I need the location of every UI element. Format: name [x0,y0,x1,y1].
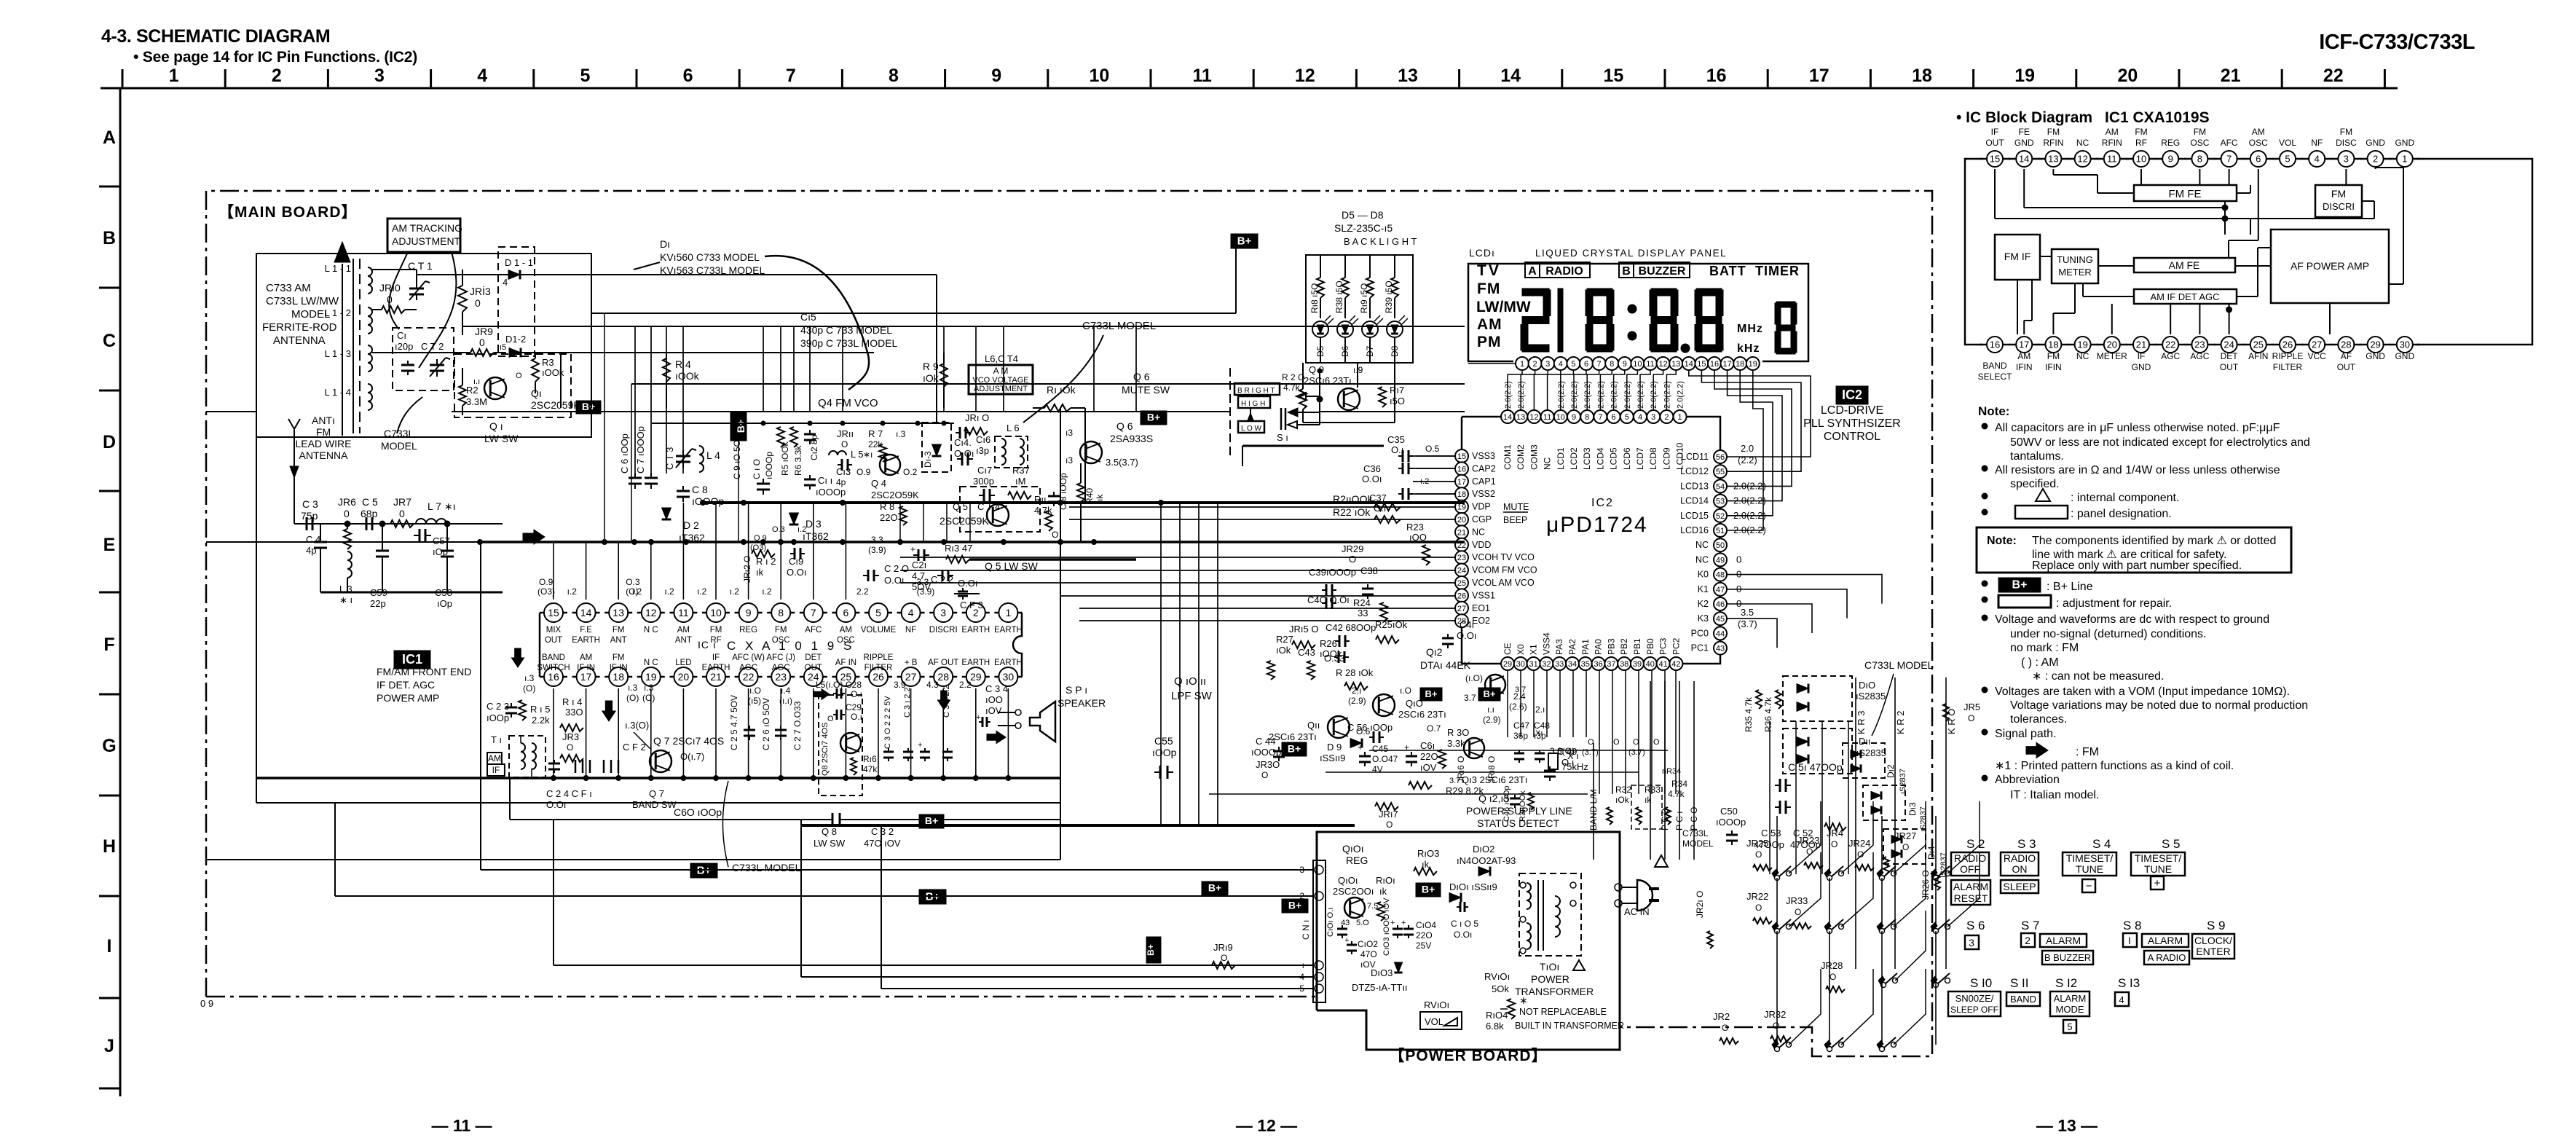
svg-text:O: O [1968,713,1974,723]
CF2 caps [603,760,605,773]
svg-text:ANTENNA: ANTENNA [299,449,349,461]
svg-text:24: 24 [1457,567,1466,576]
svg-text:19: 19 [2077,339,2087,350]
svg-text:5.O: 5.O [1356,919,1369,927]
svg-text:11: 11 [678,607,689,618]
LCD pins 1-19 [1516,357,1529,370]
svg-text:D7: D7 [1365,345,1375,357]
svg-text:2.0(2.2): 2.0(2.2) [1504,381,1513,409]
svg-text:25V: 25V [1416,940,1431,951]
svg-text:35: 35 [1581,660,1590,669]
svg-text:S II: S II [2010,976,2029,990]
svg-text:【MAIN BOARD】: 【MAIN BOARD】 [218,204,358,221]
svg-text:DTZ5-ıA-TTıı: DTZ5-ıA-TTıı [1352,982,1408,993]
svg-text:O.O47: O.O47 [1372,754,1398,764]
svg-text:17: 17 [580,671,592,683]
svg-text:OUT: OUT [545,636,562,645]
svg-text:ı3: ı3 [1066,428,1073,438]
svg-text:VCOM FM VCO: VCOM FM VCO [1472,565,1537,576]
svg-text:BEEP: BEEP [1503,515,1527,525]
svg-text:IT : Italian model.: IT : Italian model. [2010,789,2099,801]
svg-text:PC1: PC1 [1691,643,1709,653]
svg-text:(ı5): (ı5) [748,696,761,706]
svg-text:FM: FM [2135,127,2147,137]
svg-text:(O): (O) [642,693,655,703]
svg-text:SELECT: SELECT [1978,372,2012,382]
svg-text:D6: D6 [1340,345,1350,357]
backlight box [1306,255,1413,363]
svg-text:RADIO: RADIO [2004,852,2036,864]
svg-text:AM TRACKING: AM TRACKING [392,222,462,234]
svg-text:JR32: JR32 [1764,1009,1786,1020]
svg-text:L 4: L 4 [706,449,720,461]
svg-text:4-3. SCHEMATIC DIAGRAM: 4-3. SCHEMATIC DIAGRAM [101,26,330,47]
svg-text:34: 34 [1568,660,1577,669]
svg-text:0 9: 0 9 [200,998,213,1009]
svg-text:TIMER: TIMER [1755,264,1800,278]
svg-text:S 5: S 5 [2162,837,2181,851]
svg-text:PB3: PB3 [1606,638,1616,655]
AM VCO adjustment box [969,365,1033,394]
svg-text:L 6: L 6 [1007,423,1020,433]
svg-text:C N ı: C N ı [1301,920,1311,940]
svg-text:2: 2 [272,66,282,86]
svg-text:C 3: C 3 [302,498,318,510]
svg-text:PM: PM [1477,334,1502,350]
svg-text:REG: REG [739,626,757,635]
svg-text:Q 4: Q 4 [871,478,886,489]
resistor R4 [663,358,670,382]
svg-text:POWER AMP: POWER AMP [377,692,439,704]
svg-text:Voltage variations may be note: Voltage variations may be noted due to n… [2010,699,2308,712]
main board border [206,191,1932,1056]
svg-text:S I3: S I3 [2118,976,2140,990]
svg-text:VDD: VDD [1472,540,1491,550]
svg-text:5: 5 [1571,360,1575,369]
svg-text:75p: 75p [301,510,318,522]
transistor Q11 lbl [1328,716,1350,738]
svg-text:R24: R24 [1353,597,1371,608]
svg-text:SWITCH: SWITCH [537,664,570,672]
svg-text:L 1 - 2: L 1 - 2 [325,307,351,318]
svg-text:ı3p: ı3p [976,445,989,456]
adjustment legend [1982,597,1988,602]
svg-text:AM IF DET AGC: AM IF DET AGC [2150,291,2219,302]
svg-text:5Ok: 5Ok [1492,983,1509,994]
rail y581 vco subcluster [652,423,954,424]
svg-text:27: 27 [1457,605,1466,613]
svg-text:20: 20 [2117,66,2138,86]
svg-text:EARTH: EARTH [961,626,990,635]
svg-text:47k: 47k [863,764,878,774]
svg-text:I: I [2128,935,2131,946]
svg-text:12: 12 [645,607,657,618]
svg-text:O: O [841,439,848,449]
svg-text:ıOOOp: ıOOOp [764,452,774,479]
block FM FE [2134,185,2237,201]
notes text [1982,616,1988,621]
svg-text:∗: ∗ [1519,994,1528,1006]
svg-text:MODEL: MODEL [381,440,417,452]
svg-text:EARTH: EARTH [702,664,730,672]
svg-text:Rı ıOk: Rı ıOk [1047,384,1076,396]
svg-text:POWER SUPPLY LINE: POWER SUPPLY LINE [1466,805,1572,817]
svg-text:18: 18 [613,671,624,683]
svg-text:JR5: JR5 [1963,702,1980,712]
IC1 top pin risers [553,542,554,600]
ground bus line [320,592,503,594]
svg-text:AM: AM [2017,351,2031,361]
svg-text:REG: REG [2161,138,2180,148]
BRIGHT HIGH LOW boxes [1234,383,1280,395]
svg-text:AM: AM [1477,316,1502,333]
svg-text:3.3M: 3.3M [466,396,487,407]
svg-text:C 8: C 8 [692,484,708,495]
S1 switch symbol [1280,408,1283,430]
svg-text:AF: AF [2341,351,2352,361]
svg-text:PB0: PB0 [1645,638,1655,655]
B+ badge vco [1141,411,1167,425]
svg-text:VOLUME: VOLUME [861,626,897,635]
svg-text:75kHz: 75kHz [1561,761,1588,772]
svg-text:TUNE: TUNE [2144,863,2172,875]
svg-text:FM: FM [2047,351,2060,361]
svg-text:ALARM: ALARM [2046,935,2081,946]
svg-text:• See page 14 for IC Pin Funct: • See page 14 for IC Pin Functions. (IC2… [133,49,417,66]
svg-text:S 3: S 3 [2017,837,2036,851]
B BUZZER box [1619,262,1690,278]
Q5 dashed box [960,487,1040,532]
svg-text:LCDı: LCDı [1469,247,1495,259]
svg-text:4.7k: 4.7k [1668,789,1685,799]
power board outline [1317,832,1620,1050]
svg-text:C50: C50 [1720,806,1738,817]
svg-text:: B+ Line: : B+ Line [2047,581,2093,593]
svg-text:O: O [1349,554,1356,565]
svg-text:C 4: C 4 [306,534,320,545]
svg-text:C 44: C 44 [1256,736,1275,747]
svg-text:2SCı6 23Tı: 2SCı6 23Tı [1398,709,1446,720]
svg-text:21: 21 [2136,339,2146,350]
svg-text:JR2ı O: JR2ı O [1695,891,1705,918]
svg-text:−: − [2086,880,2092,892]
svg-text:RADIO: RADIO [1545,265,1583,278]
capacitor C59 [382,545,383,551]
svg-text:JRİ0: JRİ0 [379,281,401,294]
svg-text:C 53: C 53 [1761,828,1781,838]
signal path FM arrow [2026,742,2048,758]
svg-text:NC: NC [2076,351,2089,361]
svg-text:D5: D5 [1315,345,1326,357]
svg-text:20: 20 [2107,339,2117,350]
svg-text:JR7: JR7 [393,496,411,508]
svg-text:OFF: OFF [1960,863,1980,875]
svg-text:C 2 7 O.O33: C 2 7 O.O33 [792,701,803,750]
svg-text:RVıOı: RVıOı [1424,999,1449,1010]
svg-text:2: 2 [1533,360,1537,369]
svg-text:ı20p: ı20p [395,341,413,352]
svg-text:ık: ık [756,567,764,578]
svg-text:ı.3: ı.3 [644,683,654,693]
svg-text:AGC: AGC [739,664,757,672]
svg-text:R2: R2 [466,385,478,396]
svg-text:8: 8 [889,66,899,86]
svg-text:AFC (J): AFC (J) [766,653,795,662]
svg-text:PC3: PC3 [1658,637,1669,655]
svg-text:R37: R37 [1012,465,1030,476]
svg-text:ı.3: ı.3 [524,673,535,683]
svg-text:2.0(2.2): 2.0(2.2) [1663,381,1671,409]
svg-text:H I G H: H I G H [1241,400,1265,408]
svg-text:— 11 —: — 11 — [431,1116,492,1135]
svg-text:MIX: MIX [546,626,562,635]
svg-text:RFIN: RFIN [2043,138,2063,148]
verticals IC1 right region [899,503,901,542]
svg-text:R36 4.7k: R36 4.7k [1763,696,1773,732]
svg-text:O.3: O.3 [772,525,785,534]
svg-text:SN00ZE/: SN00ZE/ [1955,993,1994,1004]
svg-text:IC ı: IC ı [698,639,717,651]
svg-text:3: 3 [374,66,385,86]
svg-text:JRı2 O: JRı2 O [742,556,752,583]
IC2 right pins 56..43 [1714,450,1727,463]
svg-text:O.3: O.3 [626,577,640,587]
svg-text:O.Oı: O.Oı [787,567,806,578]
svg-text:C36: C36 [1363,463,1381,474]
svg-text:ıS2837: ıS2837 [1919,806,1928,832]
bus junction dots [478,540,483,545]
svg-text:S 7: S 7 [2021,919,2040,932]
svg-text:+: + [1358,742,1363,753]
svg-text:23: 23 [1457,554,1466,562]
svg-text:GND: GND [2366,138,2385,148]
vertical channel left of IC2 [1160,503,1162,825]
svg-text:CıO4: CıO4 [1416,920,1436,930]
svg-text:ANTENNA: ANTENNA [273,334,326,347]
svg-text:L6,C T4: L6,C T4 [985,353,1018,364]
svg-text:IFIN: IFIN [2045,362,2062,372]
resistor R15 [519,700,526,720]
svg-text:AFIN: AFIN [2248,351,2268,361]
svg-text:C 9 ıO 5OV: C 9 ıO 5OV [732,434,742,479]
svg-text:37: 37 [1607,660,1615,669]
svg-text:7: 7 [811,607,816,618]
svg-text:ANTı: ANTı [312,415,335,426]
svg-text:19: 19 [2014,66,2035,86]
svg-text:Rı6: Rı6 [863,754,877,764]
svg-text:JR25: JR25 [1746,838,1768,849]
svg-text:O: O [1386,820,1393,830]
svg-text:C X A 1 0 1 9 S: C X A 1 0 1 9 S [727,639,854,653]
svg-text:3.9: 3.9 [894,680,906,690]
svg-text:C733L MODEL: C733L MODEL [732,862,801,873]
svg-text:7: 7 [1597,360,1602,369]
svg-text:26: 26 [2282,339,2293,350]
svg-text:R35 4.7k: R35 4.7k [1744,696,1754,732]
svg-text:L 1 - 4: L 1 - 4 [325,387,351,398]
switch matrix vertical stubs [1776,816,1778,873]
svg-text:AM: AM [840,626,852,635]
svg-text:JR33: JR33 [1786,895,1808,906]
rail y527 [631,383,1465,385]
diode D3 [789,513,799,525]
svg-text:AF OUT: AF OUT [928,659,958,667]
svg-text:O: O [567,742,573,753]
svg-text:B+: B+ [1237,235,1252,247]
svg-text:9: 9 [1623,360,1627,369]
IC1 block outline [1965,159,1982,345]
svg-text:JR9: JR9 [475,326,493,337]
D11 dashed box [1783,728,1852,774]
svg-text:19: 19 [1457,503,1466,512]
svg-text:T ı: T ı [491,734,502,745]
svg-text:JRı O: JRı O [965,412,989,423]
svg-text:Note:: Note: [1978,404,2009,418]
left ruler [119,88,122,1096]
svg-text:3: 3 [1651,413,1655,422]
svg-text:AF IN: AF IN [835,659,856,667]
svg-text:13: 13 [1398,66,1418,86]
mute area verticals [1060,408,1061,542]
svg-text:C4ı: C4ı [1460,619,1474,630]
svg-text:LCD3: LCD3 [1582,447,1592,470]
svg-text:OUT: OUT [1985,138,2004,148]
svg-text:28: 28 [937,671,949,683]
svg-text:VCOL AM VCO: VCOL AM VCO [1472,578,1535,588]
svg-text:C35: C35 [1387,434,1405,445]
LCD colon [1628,305,1636,313]
svg-text:VSS4: VSS4 [1541,632,1551,655]
svg-text:LCD13: LCD13 [1680,481,1709,491]
svg-text:RVıOı: RVıOı [1484,971,1510,982]
svg-text:MUTE: MUTE [1503,502,1529,512]
svg-text:ı.O: ı.O [749,686,761,696]
svg-text:QıOı: QıOı [1342,843,1364,855]
IC2 chip outline [1462,417,1720,664]
svg-text:2.4: 2.4 [1513,691,1526,702]
rail y565 [452,411,1230,412]
svg-text:— 13 —: — 13 — [2036,1116,2098,1135]
svg-text:0: 0 [1736,554,1741,565]
svg-text:3: 3 [2344,154,2349,165]
Q12 region horizontals [1369,750,1668,751]
svg-text:All capacitors are in μF unles: All capacitors are in μF unless otherwis… [1995,422,2280,434]
svg-text:AC IN: AC IN [1624,906,1650,917]
svg-text:IC1 CXA1019S: IC1 CXA1019S [2105,109,2210,126]
svg-text:EARTH: EARTH [961,659,990,667]
svg-text:LCD2: LCD2 [1569,447,1579,470]
svg-text:14: 14 [2019,154,2029,165]
svg-text:ı.2: ı.2 [664,586,674,597]
rail y484 extension [561,352,874,353]
svg-text:AFC (W): AFC (W) [732,653,765,662]
svg-text:ıOOp: ıOOp [1152,747,1177,758]
svg-text:2.ı: 2.ı [1535,704,1545,715]
svg-text:— 12 —: — 12 — [1236,1116,1297,1135]
svg-text:1: 1 [1520,360,1524,369]
svg-text:9: 9 [991,66,1001,86]
svg-text:ıN4OO2AT-93: ıN4OO2AT-93 [1457,855,1516,866]
svg-text:FM FE: FM FE [2169,188,2202,200]
svg-text:9: 9 [1572,413,1576,422]
svg-text:ICF-C733/C733L: ICF-C733/C733L [2319,31,2475,54]
svg-text:C733 AM: C733 AM [266,282,311,294]
svg-text:O: O [1722,1023,1728,1033]
IC1 bottom pins 16..30 [540,676,567,678]
svg-text:C 3 O 2 2 2 5V: C 3 O 2 2 2 5V [883,696,892,749]
svg-text:4p: 4p [306,545,316,556]
B+ badge below speaker [919,814,944,828]
signal arrow right [523,530,545,544]
svg-text:FM: FM [2047,127,2060,137]
svg-text:EO1: EO1 [1472,603,1490,613]
svg-text:C ı O: C ı O [752,459,762,479]
LCD panel outline [1468,264,1808,361]
svg-text:SLEEP: SLEEP [2003,881,2036,892]
svg-text:(O3): (O3) [537,586,555,597]
svg-text:O: O [1755,849,1762,860]
svg-text:S I2: S I2 [2055,976,2077,990]
svg-text:CAP1: CAP1 [1472,476,1496,487]
svg-text:B: B [103,228,116,248]
svg-text:5: 5 [1625,413,1629,422]
svg-text:FM IF: FM IF [2004,251,2031,262]
svg-text:8: 8 [1585,413,1589,422]
svg-text:R6 3.3k: R6 3.3k [793,445,803,476]
svg-text:47O ıOV: 47O ıOV [864,838,901,849]
svg-text:A RADIO: A RADIO [2148,952,2186,963]
svg-text:50WV or less are not indicated: 50WV or less are not indicated except fo… [2010,436,2310,449]
svg-text:3: 3 [1969,937,1974,948]
R29 resistor [1409,782,1432,789]
svg-text:FE: FE [2019,127,2030,137]
svg-text:F: F [103,635,114,655]
B+ badge mid [730,412,747,441]
svg-text:O: O [1773,1021,1779,1031]
svg-text:4V: 4V [1372,764,1383,774]
svg-text:R ı 4: R ı 4 [562,696,582,707]
up arrow [334,242,350,262]
svg-text:O.2: O.2 [903,467,918,477]
svg-text:C 2 4 C F ı: C 2 4 C F ı [546,788,592,799]
svg-text:C733L: C733L [384,428,414,439]
svg-text:15: 15 [548,607,559,618]
svg-text:DISC: DISC [2336,138,2357,148]
svg-text:ON: ON [2012,863,2028,875]
svg-text:PA2: PA2 [1567,639,1577,655]
svg-text:IF: IF [2138,351,2146,361]
svg-text:4: 4 [1559,360,1563,369]
block AM FE [2134,258,2235,272]
svg-text:LCD11: LCD11 [1681,452,1709,462]
svg-text:BAND: BAND [1982,361,2007,371]
svg-text:B+: B+ [1208,882,1221,894]
svg-text:VCC: VCC [2308,351,2327,361]
svg-text:L5(ı.O): L5(ı.O) [816,680,843,690]
svg-text:11: 11 [1543,413,1551,422]
svg-text:DıOı ıSSıı9: DıOı ıSSıı9 [1449,881,1497,892]
svg-text:300p: 300p [973,476,994,487]
svg-text:4p: 4p [836,477,846,487]
svg-text:22: 22 [743,671,755,683]
svg-text:68p: 68p [361,508,378,519]
svg-text:3: 3 [1545,360,1550,369]
svg-text:17: 17 [1457,478,1466,487]
wire rows right of IC1 to IC2 [1413,455,1455,457]
svg-text:23: 23 [775,671,787,683]
svg-text:IC1: IC1 [402,652,422,667]
extra cap pin27 [924,748,926,752]
